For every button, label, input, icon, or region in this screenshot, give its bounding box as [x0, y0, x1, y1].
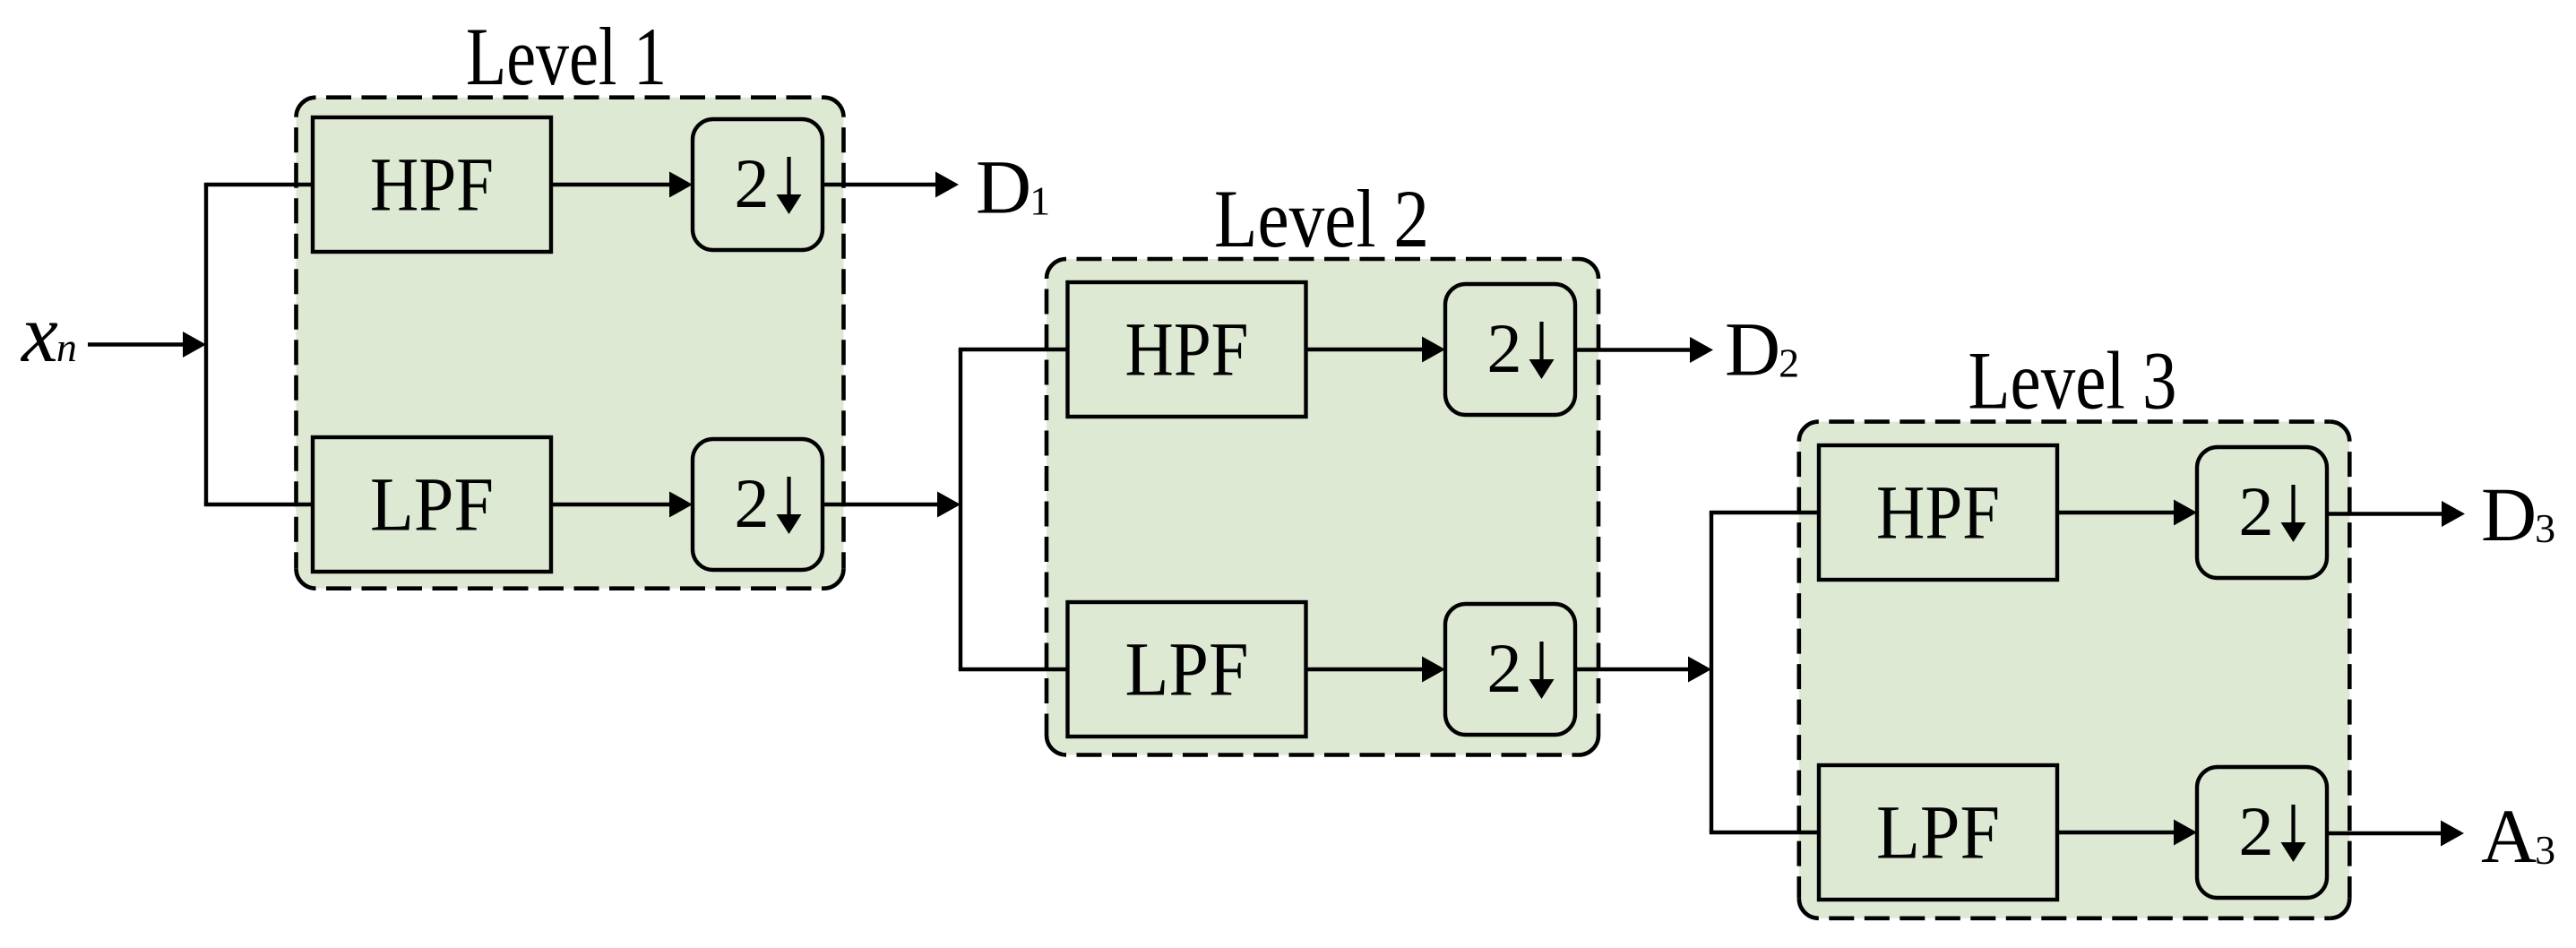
wire D3 output — [2327, 512, 2445, 515]
wire level2 LPF to level3 — [1575, 668, 1692, 671]
svg-text:2: 2 — [1486, 629, 1521, 707]
svg-text:LPF: LPF — [1125, 625, 1249, 711]
svg-text:2: 2 — [734, 464, 769, 542]
HPF2 block — [1068, 282, 1306, 417]
downsampler 2v level2 top — [1445, 284, 1575, 415]
node split level 2 — [959, 349, 962, 669]
svg-text:HPF: HPF — [1876, 469, 2000, 555]
level 2 frame — [1047, 259, 1598, 755]
wire A3 output — [2327, 832, 2444, 835]
level 3 frame — [1799, 422, 2350, 918]
wire to LPF2 — [959, 668, 1068, 671]
HPF3 block — [1819, 445, 2057, 580]
wire to HPF1 — [204, 183, 313, 186]
node split level 1 — [204, 185, 208, 504]
downsampler 2v level3 bottom — [2197, 767, 2327, 898]
downsampler 2v level1 top — [693, 119, 823, 250]
LPF1 block — [313, 437, 551, 572]
svg-text:Level 3: Level 3 — [1969, 335, 2177, 427]
wire LPF3 to downsampler — [2057, 831, 2177, 834]
svg-text:2: 2 — [2238, 792, 2273, 870]
input wire — [88, 342, 185, 346]
downsampler 2v level1 bottom — [693, 439, 823, 570]
svg-text:2: 2 — [1486, 309, 1521, 387]
svg-text:2: 2 — [734, 144, 769, 222]
wire D2 output — [1575, 348, 1693, 351]
node split level 3 — [1710, 513, 1713, 832]
wire HPF3 to downsampler — [2057, 511, 2177, 514]
downsampler 2v level2 bottom — [1445, 604, 1575, 735]
svg-text:Level 2: Level 2 — [1214, 173, 1429, 264]
wire to HPF2 — [959, 348, 1068, 351]
svg-text:Level 1: Level 1 — [466, 11, 667, 102]
svg-text:LPF: LPF — [370, 461, 494, 547]
LPF2 block — [1068, 602, 1306, 737]
wire LPF2 to downsampler — [1306, 668, 1426, 671]
HPF1 block — [313, 117, 551, 252]
wire to HPF3 — [1710, 511, 1819, 514]
svg-text:2: 2 — [2238, 472, 2273, 550]
wire to LPF3 — [1710, 831, 1819, 834]
svg-text:HPF: HPF — [1125, 306, 1249, 392]
wire to LPF1 — [204, 503, 313, 506]
svg-text:HPF: HPF — [370, 141, 494, 227]
wire D1 output — [823, 183, 939, 186]
level 1 frame — [297, 98, 844, 589]
svg-text:LPF: LPF — [1876, 789, 2000, 875]
downsampler 2v level3 top — [2197, 447, 2327, 578]
wire LPF1 to downsampler — [551, 503, 673, 506]
wire HPF2 to downsampler — [1306, 348, 1426, 351]
wire level1 LPF to level2 — [823, 503, 941, 506]
wire HPF1 to downsampler — [551, 183, 673, 186]
LPF3 block — [1819, 765, 2057, 900]
